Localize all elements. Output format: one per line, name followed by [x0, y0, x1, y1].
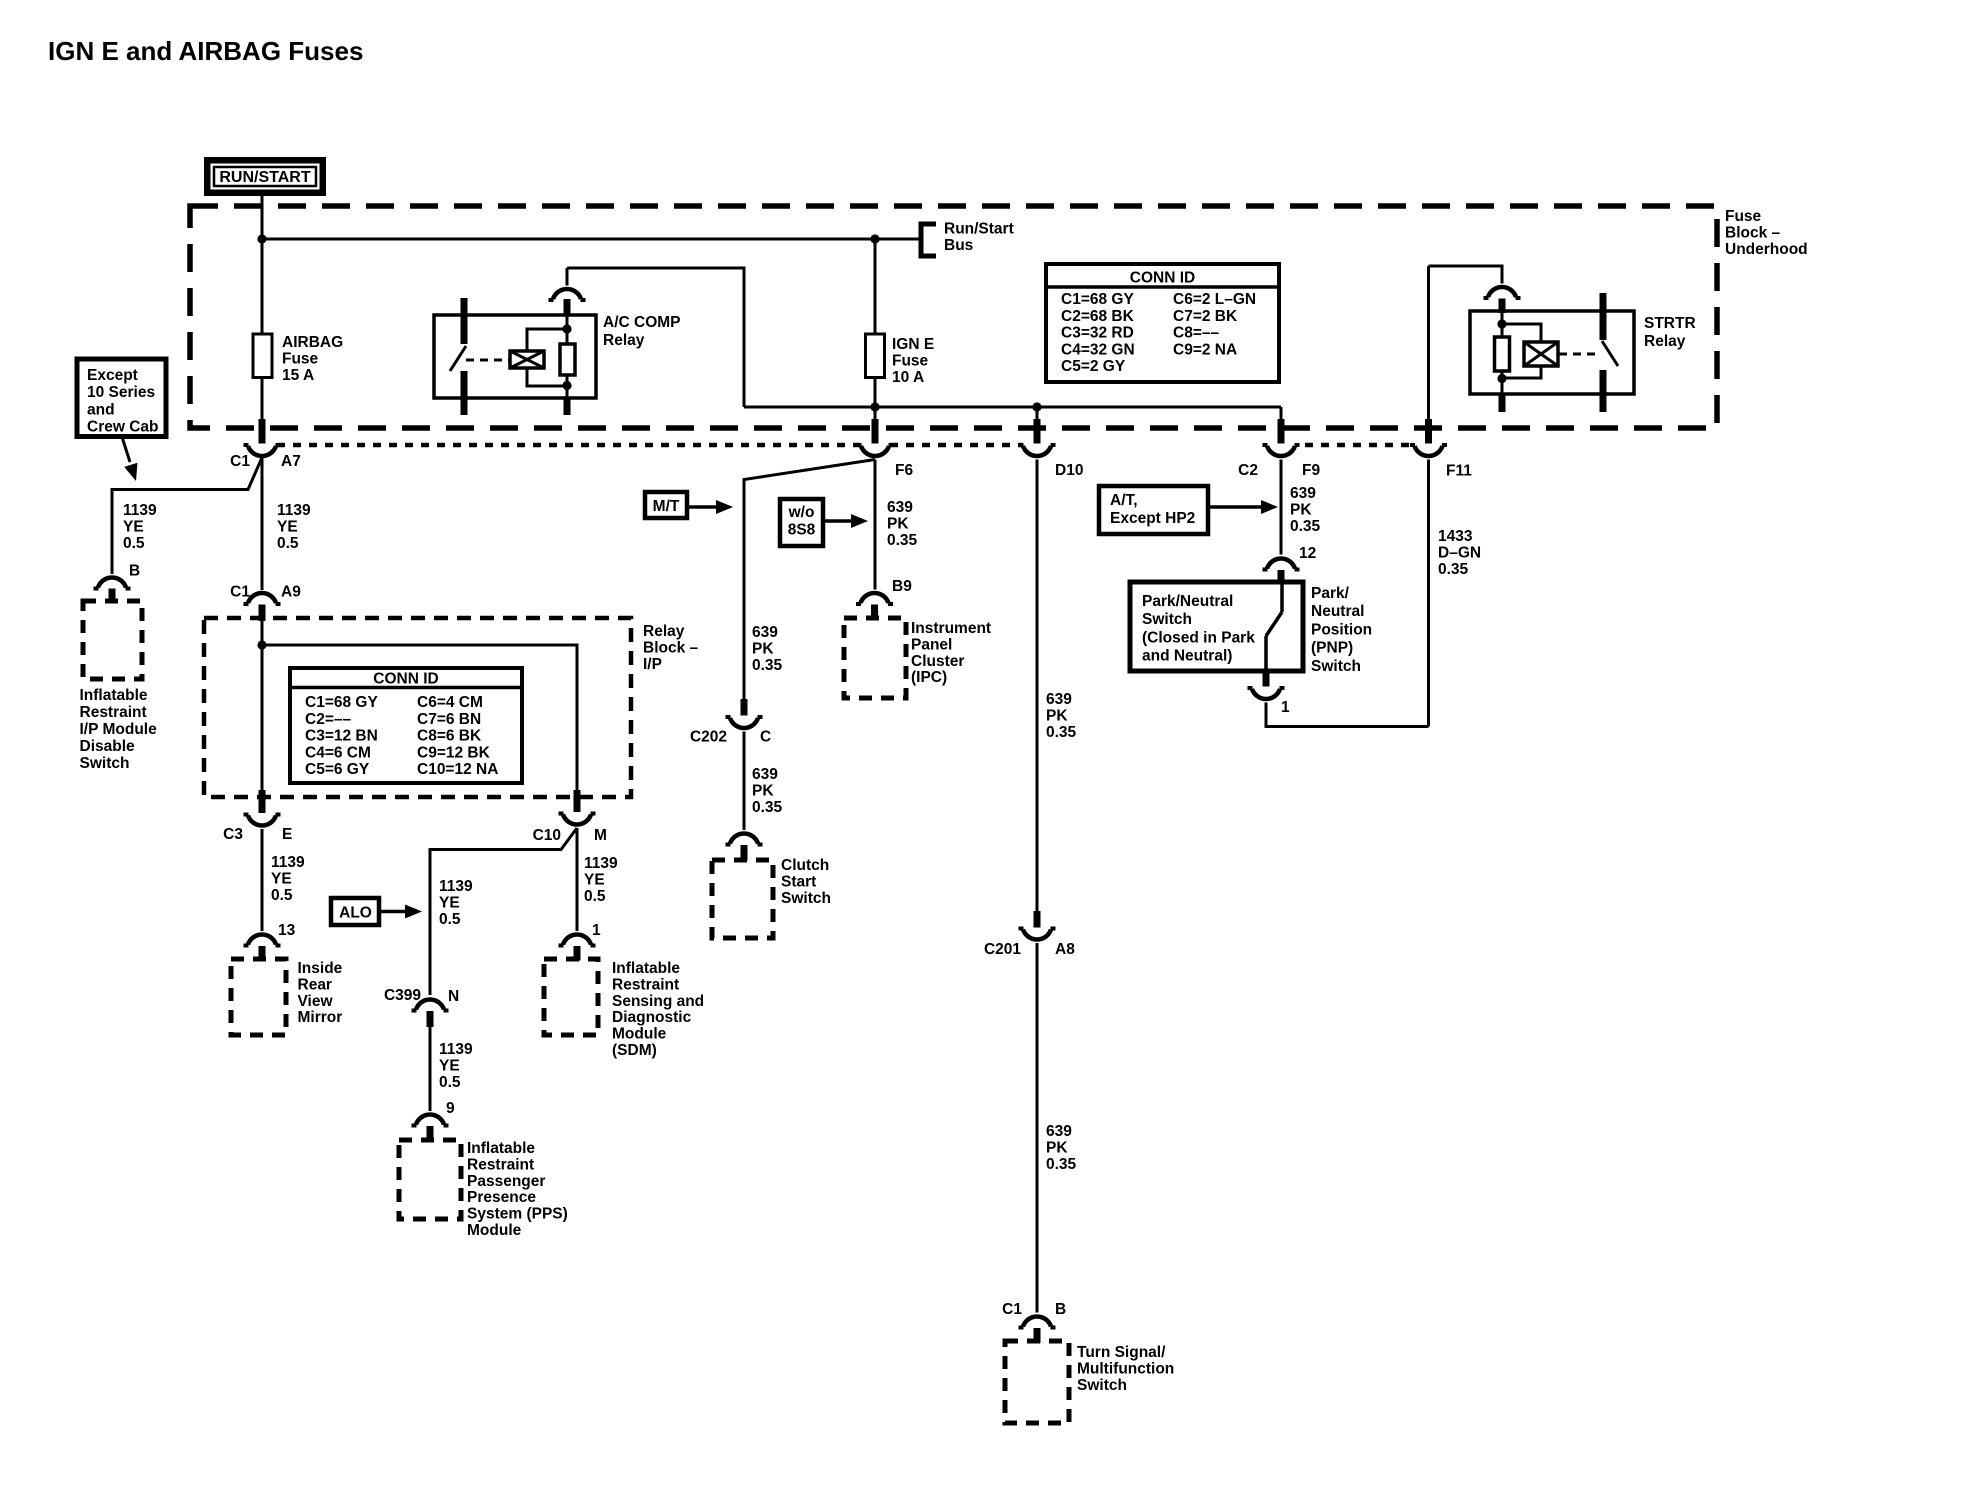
connector C1/A9 stub [259, 605, 266, 622]
label F6 [895, 462, 913, 479]
connector B stub [109, 589, 116, 604]
svg-text:F6: F6 [895, 462, 913, 479]
relay A/C COMP switch common pin [461, 298, 468, 344]
svg-text:CONN ID: CONN ID [1130, 270, 1195, 287]
module box Instrument Panel Cluster [844, 618, 906, 698]
svg-text:C399: C399 [384, 987, 421, 1004]
wire F9 down to pin 12 [1280, 460, 1283, 555]
flag box A/T Except HP2 [1099, 486, 1208, 534]
svg-text:A8: A8 [1055, 941, 1075, 958]
junction dot IGN E / main feed [870, 402, 879, 411]
svg-text:C1=68 GYC2=68 BKC3=32 RDC4=32: C1=68 GYC2=68 BKC3=32 RDC4=32 GNC5=2 GY [1061, 291, 1135, 375]
svg-text:N: N [448, 988, 459, 1005]
connector C201/A8 cup [1019, 929, 1056, 940]
wire main feed across [744, 407, 1281, 421]
connector C201/A8 stub [1034, 911, 1041, 928]
connector 1 arc [559, 935, 596, 946]
connector D10 cup [1019, 445, 1056, 456]
node RUN/START (voltage source label box) [204, 157, 326, 196]
label circuit 639 PK 0.35 (clutch lower) [752, 766, 783, 816]
wire A/C relay coil to IGN E feed [567, 268, 744, 407]
svg-text:ALO: ALO [339, 905, 372, 922]
svg-text:B: B [1055, 1301, 1066, 1318]
connector C2/F9 cup [1263, 445, 1300, 456]
connector 1 stub [574, 946, 581, 961]
svg-text:1139YE0.5: 1139YE0.5 [439, 1041, 473, 1091]
svg-text:E: E [282, 826, 292, 843]
label circuit 1139 YE 0.5 (mirror) [271, 854, 305, 904]
label circuit 639 PK 0.35 (D10 upper) [1046, 691, 1077, 741]
junction dot D10 tap [1032, 402, 1041, 411]
svg-text:C6=4 CMC7=6 BNC8=6 BKC9=12 BKC: C6=4 CMC7=6 BNC8=6 BKC9=12 BKC10=12 NA [417, 694, 498, 778]
arrow M/T [687, 500, 733, 514]
relay A/C COMP coil connector arc [549, 289, 586, 300]
svg-text:639PK0.35: 639PK0.35 [1046, 691, 1077, 741]
connector 12 arc [1263, 559, 1300, 570]
label Instrument Panel Cluster (IPC) [911, 620, 991, 686]
relay STRTR coil output stub [1499, 394, 1506, 412]
connector 1 (PNP) stub [1263, 671, 1270, 687]
label B (turn signal) [1055, 1301, 1066, 1318]
connector C1/B stub [1034, 1328, 1041, 1343]
connector 13 stub [259, 946, 266, 961]
svg-text:B: B [129, 563, 140, 580]
svg-text:1139YE0.5: 1139YE0.5 [277, 502, 311, 552]
relay A/C COMP coil [510, 351, 544, 368]
label E [282, 826, 292, 843]
wire branch M to ALO drop [430, 828, 577, 995]
svg-text:IGN E and AIRBAG Fuses: IGN E and AIRBAG Fuses [48, 36, 363, 66]
relay A/C COMP output stub [564, 398, 571, 415]
wire A9 into relay block [261, 620, 264, 646]
label C201 [984, 941, 1021, 958]
svg-text:InflatableRestraintPassengerPr: InflatableRestraintPassengerPresenceSyst… [467, 1140, 568, 1239]
svg-text:C1: C1 [230, 453, 250, 470]
label Run/Start Bus [944, 221, 1014, 254]
svg-text:Park/NeutralSwitch(Closed in P: Park/NeutralSwitch(Closed in Parkand Neu… [1142, 593, 1255, 665]
label D10 [1055, 462, 1083, 479]
wire bus to IGN E fuse [874, 239, 877, 335]
relay A/C COMP inner wiring [527, 300, 567, 398]
relay STRTR coil [1524, 342, 1558, 366]
label STRTR Relay [1644, 315, 1696, 350]
arrow Except [122, 437, 138, 481]
wire F11 down [1427, 460, 1430, 727]
wire branch F6 to clutch drop [744, 460, 875, 700]
label C202 [690, 729, 727, 746]
wire E down to 13 [261, 829, 264, 931]
fuse IGN E 10A [866, 334, 885, 378]
svg-text:Except10 SeriesandCrew Cab: Except10 SeriesandCrew Cab [87, 367, 159, 436]
label circuit 1433 D-GN 0.35 [1438, 528, 1481, 578]
label M [594, 827, 607, 844]
svg-text:A/T,Except HP2: A/T,Except HP2 [1110, 492, 1195, 527]
label circuit 1139 YE 0.5 (ALO upper) [439, 878, 473, 928]
relay STRTR coil connector arc [1484, 287, 1521, 298]
svg-text:1: 1 [1281, 699, 1290, 716]
label A7 [281, 453, 301, 470]
flag box w/o 8S8 [780, 499, 823, 546]
module box Clutch Start Switch [712, 860, 773, 938]
svg-text:InstrumentPanelCluster(IPC): InstrumentPanelCluster(IPC) [911, 620, 991, 686]
label circuit 1139 YE 0.5 (left branch) [123, 502, 157, 552]
svg-text:C: C [760, 729, 771, 746]
junction dot STRTR bottom [1497, 374, 1506, 383]
connector C1/A9 arc [244, 593, 281, 604]
wire A7 down to A9 [261, 458, 264, 591]
connector F6 stub [872, 419, 879, 444]
connector 9 stub [427, 1126, 434, 1141]
label Inflatable Restraint Sensing and Diagnostic Module (SDM) [612, 960, 704, 1059]
label A8 [1055, 941, 1075, 958]
relay STRTR actuation dashed link [1559, 353, 1601, 356]
relay STRTR switch output pin [1600, 370, 1607, 412]
wire F11 top run [1427, 266, 1430, 421]
svg-text:1433D–GN0.35: 1433D–GN0.35 [1438, 528, 1481, 578]
svg-text:9: 9 [446, 1100, 455, 1117]
svg-text:IGN EFuse10 A: IGN EFuse10 A [892, 336, 934, 386]
junction dot at IGN E fuse / bus [870, 234, 879, 243]
relay A/C COMP resistor [560, 344, 575, 375]
svg-text:CONN ID: CONN ID [373, 671, 438, 688]
wire C down to clutch switch [743, 732, 746, 831]
wire D10 tap down [1036, 407, 1039, 421]
wire D10 down to C201 [1036, 460, 1039, 912]
svg-text:C202: C202 [690, 729, 727, 746]
svg-text:F11: F11 [1446, 463, 1472, 480]
label pin 1 (SDM) [592, 922, 601, 939]
label Park/Neutral Switch (Closed in Park and Neutral) [1142, 593, 1255, 665]
relay A/C COMP actuation dashed link [466, 359, 509, 362]
svg-text:Turn Signal/MultifunctionSwitc: Turn Signal/MultifunctionSwitch [1077, 1344, 1174, 1394]
connector C202/C stub [741, 699, 748, 716]
junction dot STRTR top [1497, 319, 1506, 328]
label pin 1 (PNP) [1281, 699, 1290, 716]
relay A/C COMP box [434, 315, 596, 398]
svg-text:Run/StartBus: Run/StartBus [944, 221, 1014, 254]
svg-text:C6=2 L–GNC7=2 BKC8=––C9=2 NA: C6=2 L–GNC7=2 BKC8=––C9=2 NA [1173, 291, 1256, 358]
connector C202/C cup [726, 717, 763, 728]
wire relay block left drop to C3 [261, 645, 264, 791]
svg-text:C1=68 GYC2=––C3=12 BNC4=6 CMC5: C1=68 GYC2=––C3=12 BNC4=6 CMC5=6 GY [305, 694, 378, 778]
bus end bracket symbol [921, 224, 936, 256]
svg-text:C2: C2 [1238, 462, 1258, 479]
label circuit 1139 YE 0.5 (A7-A9) [277, 502, 311, 552]
svg-text:639PK0.35: 639PK0.35 [752, 766, 783, 816]
label pin B (disable switch) [129, 563, 140, 580]
connector B9 stub [871, 605, 878, 620]
svg-text:12: 12 [1299, 545, 1316, 562]
connector C2/F9 stub [1278, 419, 1285, 444]
wire RUN/START to bus [261, 196, 264, 240]
label IGN E Fuse 10 A [892, 336, 934, 386]
table CONN ID (fuse block underhood) [1046, 264, 1279, 382]
svg-text:InflatableRestraintSensing and: InflatableRestraintSensing andDiagnostic… [612, 960, 704, 1059]
junction dot at airbag fuse / bus [257, 234, 266, 243]
label pin 13 [278, 922, 296, 939]
svg-text:M/T: M/T [653, 498, 680, 515]
svg-text:A9: A9 [281, 584, 301, 601]
connector B arc [94, 577, 131, 588]
relay A/C COMP switch output pin [461, 371, 468, 415]
svg-text:1139YE0.5: 1139YE0.5 [271, 854, 305, 904]
svg-text:639PK0.35: 639PK0.35 [887, 499, 918, 549]
svg-text:C1: C1 [230, 584, 250, 601]
connector 13 arc [244, 935, 281, 946]
wire A8 down to turn signal switch [1036, 943, 1039, 1313]
fuse block underhood dashed boundary [190, 206, 1717, 428]
svg-text:InsideRearViewMirror: InsideRearViewMirror [298, 960, 343, 1026]
svg-text:w/o8S8: w/o8S8 [788, 504, 816, 539]
connector F11 stub [1425, 419, 1432, 444]
wire STRTR coil feed [1429, 266, 1503, 284]
svg-text:1139YE0.5: 1139YE0.5 [123, 502, 157, 552]
svg-text:C1: C1 [1002, 1301, 1022, 1318]
svg-text:RelayBlock –I/P: RelayBlock –I/P [643, 623, 699, 673]
label C3 [223, 826, 243, 843]
connector 9 arc [412, 1115, 449, 1126]
label C10 [533, 827, 561, 844]
svg-text:639PK0.35: 639PK0.35 [1046, 1123, 1077, 1173]
flag box ALO [331, 898, 379, 925]
svg-text:InflatableRestraintI/P ModuleD: InflatableRestraintI/P ModuleDisableSwit… [80, 687, 158, 772]
label circuit 639 PK 0.35 (clutch upper) [752, 624, 783, 674]
svg-text:FuseBlock –Underhood: FuseBlock –Underhood [1725, 208, 1808, 258]
wire bus to AIRBAG fuse [261, 239, 264, 335]
wire N down to 9 [429, 1027, 432, 1111]
relay STRTR inner wiring [1502, 311, 1541, 394]
label C (C202) [760, 729, 771, 746]
arrow w/o 8S8 [823, 514, 868, 528]
module box Inflatable Restraint PPS Module [399, 1140, 461, 1219]
relay block I/P dashed boundary [204, 618, 631, 797]
svg-text:13: 13 [278, 922, 296, 939]
connector C3/E stub [259, 790, 266, 813]
connector clutch stub [741, 845, 748, 861]
label Inflatable Restraint Passenger Presence System (PPS) Module [467, 1140, 568, 1239]
wire Run/Start Bus [262, 238, 921, 241]
module box Inside Rear View Mirror [231, 959, 286, 1035]
label Turn Signal/Multifunction Switch [1077, 1344, 1174, 1394]
flag box Except 10 Series and Crew Cab [77, 359, 166, 437]
relay A/C COMP switch blade [450, 346, 466, 371]
svg-text:Park/NeutralPosition(PNP)Switc: Park/NeutralPosition(PNP)Switch [1311, 585, 1372, 675]
label C2 [1238, 462, 1258, 479]
label pin 12 [1299, 545, 1316, 562]
svg-text:1139YE0.5: 1139YE0.5 [584, 855, 618, 905]
junction dot A/C relay bottom [562, 381, 571, 390]
label N [448, 988, 459, 1005]
park/neutral switch contact [1266, 582, 1282, 671]
switch box Park/Neutral Switch [1130, 582, 1303, 671]
label F11 [1446, 463, 1472, 480]
svg-text:1: 1 [592, 922, 601, 939]
svg-text:C10: C10 [533, 827, 561, 844]
svg-text:B9: B9 [892, 578, 912, 595]
table CONN ID (relay block) [290, 668, 522, 783]
label Relay Block - I/P [643, 623, 699, 673]
label C1 (A7) [230, 453, 250, 470]
junction dot A/C relay top [562, 324, 571, 333]
label AIRBAG Fuse 15 A [282, 334, 343, 384]
label C1 (turn signal) [1002, 1301, 1022, 1318]
svg-text:D10: D10 [1055, 462, 1083, 479]
connector C1/B arc [1019, 1317, 1056, 1328]
connector C399/N stub [427, 1011, 434, 1027]
label circuit 1139 YE 0.5 (PPS) [439, 1041, 473, 1091]
relay STRTR coil supply stub [1499, 299, 1506, 314]
title [48, 36, 363, 66]
relay STRTR switch blade [1602, 341, 1618, 366]
label circuit 1139 YE 0.5 (SDM) [584, 855, 618, 905]
label Inflatable Restraint I/P Module Disable Switch [80, 687, 158, 772]
wire M down to 1 [576, 828, 579, 931]
label circuit 639 PK 0.35 (D10 lower) [1046, 1123, 1077, 1173]
label circuit 639 PK 0.35 (IPC) [887, 499, 918, 549]
relay STRTR switch common pin [1600, 293, 1607, 340]
label Park/Neutral Position (PNP) Switch [1311, 585, 1372, 675]
wire AIRBAG fuse to connector A7 [261, 378, 264, 422]
svg-text:M: M [594, 827, 607, 844]
svg-text:ClutchStartSwitch: ClutchStartSwitch [781, 857, 831, 907]
relay STRTR resistor [1495, 337, 1510, 371]
wire PNP pin 1 to F11 [1266, 703, 1429, 727]
wire relay block branch to C10 [262, 645, 577, 791]
label A9 [281, 584, 301, 601]
label Inside Rear View Mirror [298, 960, 343, 1026]
module box Inflatable Restraint I/P Module Disable Switch [83, 601, 142, 679]
connector C10/M cup [559, 814, 596, 825]
svg-text:F9: F9 [1302, 462, 1320, 479]
label B9 [892, 578, 912, 595]
label Clutch Start Switch [781, 857, 831, 907]
connector C1/A7 stub [259, 419, 266, 444]
connector C3/E cup [244, 815, 281, 826]
connector F11 cup [1410, 445, 1447, 456]
svg-text:AIRBAGFuse15 A: AIRBAGFuse15 A [282, 334, 343, 384]
connector C10/M stub [574, 790, 581, 812]
connector F6 cup [857, 445, 894, 456]
connector clutch arc [726, 834, 763, 845]
junction dot relay block [257, 640, 266, 649]
svg-text:A7: A7 [281, 453, 301, 470]
label F9 [1302, 462, 1320, 479]
flag box M/T [645, 492, 687, 518]
svg-text:C201: C201 [984, 941, 1021, 958]
label pin 9 [446, 1100, 455, 1117]
svg-text:STRTRRelay: STRTRRelay [1644, 315, 1696, 350]
module box Turn Signal / Multifunction Switch [1005, 1341, 1069, 1423]
connector C399/N arc [412, 1000, 449, 1011]
fuse AIRBAG 15A [253, 334, 272, 378]
svg-text:639PK0.35: 639PK0.35 [752, 624, 783, 674]
relay A/C COMP coil supply stub [564, 299, 571, 316]
connector D10 stub [1034, 419, 1041, 444]
label Fuse Block - Underhood [1725, 208, 1808, 258]
connector 12 stub [1278, 570, 1285, 583]
svg-text:A/C COMPRelay: A/C COMPRelay [603, 314, 681, 349]
connector 1 (PNP) cup [1248, 688, 1285, 699]
connector B9 arc [856, 593, 893, 604]
svg-text:RUN/START: RUN/START [219, 169, 310, 186]
i/p harness dotted boundary [277, 443, 1413, 448]
connector C1/A7 cup [244, 445, 281, 456]
label circuit 639 PK 0.35 (PNP) [1290, 485, 1321, 535]
wire branch A7 to disable-switch drop [112, 458, 262, 575]
wire F6 down to B9 [874, 460, 877, 590]
label A/C COMP Relay [603, 314, 681, 349]
svg-text:1139YE0.5: 1139YE0.5 [439, 878, 473, 928]
relay STRTR box [1470, 311, 1634, 394]
label C399 [384, 987, 421, 1004]
arrow ALO [379, 905, 422, 919]
wire IGN E fuse to F6 [874, 378, 877, 422]
svg-text:639PK0.35: 639PK0.35 [1290, 485, 1321, 535]
label C1 (A9) [230, 584, 250, 601]
arrow A/T [1208, 500, 1278, 514]
svg-text:C3: C3 [223, 826, 243, 843]
module box Inflatable Restraint SDM [544, 959, 598, 1035]
